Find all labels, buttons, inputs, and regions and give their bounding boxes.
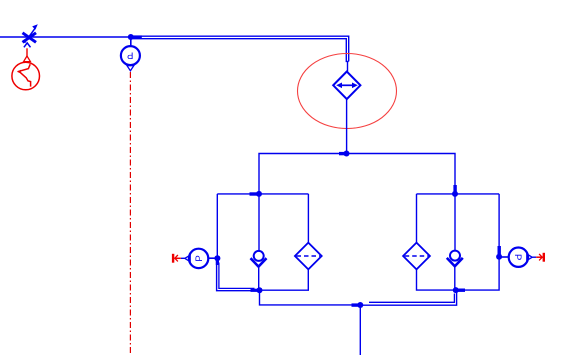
- pressure gauge G2 stub: [208, 257, 217, 259]
- signal source SRC1 control link: [26, 48, 28, 57]
- check valve CV2: [447, 251, 463, 267]
- pressure gauge G3 lead: [532, 256, 536, 258]
- wire top distribution rail: [259, 154, 455, 195]
- wire double run gauge to bottom node (inner): [219, 263, 255, 289]
- pressure gauge G2: [185, 249, 209, 268]
- wire double run right gauge to bottom (inner): [369, 294, 454, 303]
- wire left subnet bottom rail: [260, 269, 309, 290]
- wire right subnet middle column lower: [454, 266, 456, 290]
- red highlight ellipse: [298, 54, 397, 129]
- measurement dash-dot line: [129, 72, 131, 355]
- signal source SRC1: [12, 62, 40, 90]
- wire double run to flow source (outer): [131, 36, 349, 61]
- orifice O1 diamond: [295, 243, 322, 270]
- wire left subnet top rail: [217, 193, 308, 195]
- pressure gauge G1: [121, 46, 140, 71]
- wire bottom link left: [260, 290, 361, 305]
- flow source U1 diamond: [333, 72, 360, 100]
- wire double run gauge to bottom node (outer): [217, 260, 260, 291]
- orifice O2 diamond: [403, 243, 430, 270]
- pressure gauge G3 stub: [499, 256, 508, 258]
- wire left subnet right column upper: [307, 194, 309, 243]
- terminator T1 red arrow: [172, 254, 181, 263]
- pressure gauge G3: [509, 248, 533, 267]
- wire right subnet top rail: [417, 193, 500, 195]
- wire flow source to rail: [346, 99, 348, 153]
- junction J7: [453, 287, 459, 293]
- svg-text:P: P: [127, 49, 133, 60]
- orifice O1 dashed line: [297, 255, 321, 257]
- wire into flow source: [347, 61, 349, 71]
- wire to tank: [359, 305, 361, 355]
- terminator T2 red arrow: [536, 253, 545, 262]
- pressure gauge G1 stub: [130, 37, 132, 46]
- junction J2: [344, 151, 350, 157]
- wire right subnet right column: [498, 194, 500, 257]
- wire left subnet middle column lower: [258, 267, 260, 291]
- signal source SRC1 port triangle: [24, 56, 31, 62]
- wire right subnet right column lower: [456, 257, 499, 290]
- variable orifice valve V1: [23, 24, 38, 47]
- svg-text:P: P: [194, 255, 205, 261]
- junction J1: [128, 34, 134, 40]
- wire left subnet left column: [216, 194, 218, 258]
- junction J5: [257, 287, 263, 293]
- check valve CV1: [251, 251, 267, 267]
- wire right subnet left column upper: [416, 194, 418, 243]
- svg-text:P: P: [512, 254, 523, 260]
- wire right subnet left column lower: [417, 269, 456, 290]
- junction J9: [357, 302, 363, 308]
- junction J4: [214, 255, 220, 261]
- wire left subnet middle column upper: [258, 194, 260, 251]
- pressure gauge G2 lead: [181, 257, 185, 259]
- wire double run right gauge to bottom (outer): [361, 292, 457, 306]
- wire right subnet middle column upper: [454, 194, 456, 251]
- junction J8: [496, 254, 502, 260]
- orifice O2 dashed line: [405, 255, 429, 257]
- flow source U1 arrow: [336, 83, 358, 89]
- junction J3: [256, 191, 262, 197]
- wire double run to flow source (inner): [133, 39, 349, 62]
- wire main supply line: [0, 36, 131, 38]
- junction J6: [452, 191, 458, 197]
